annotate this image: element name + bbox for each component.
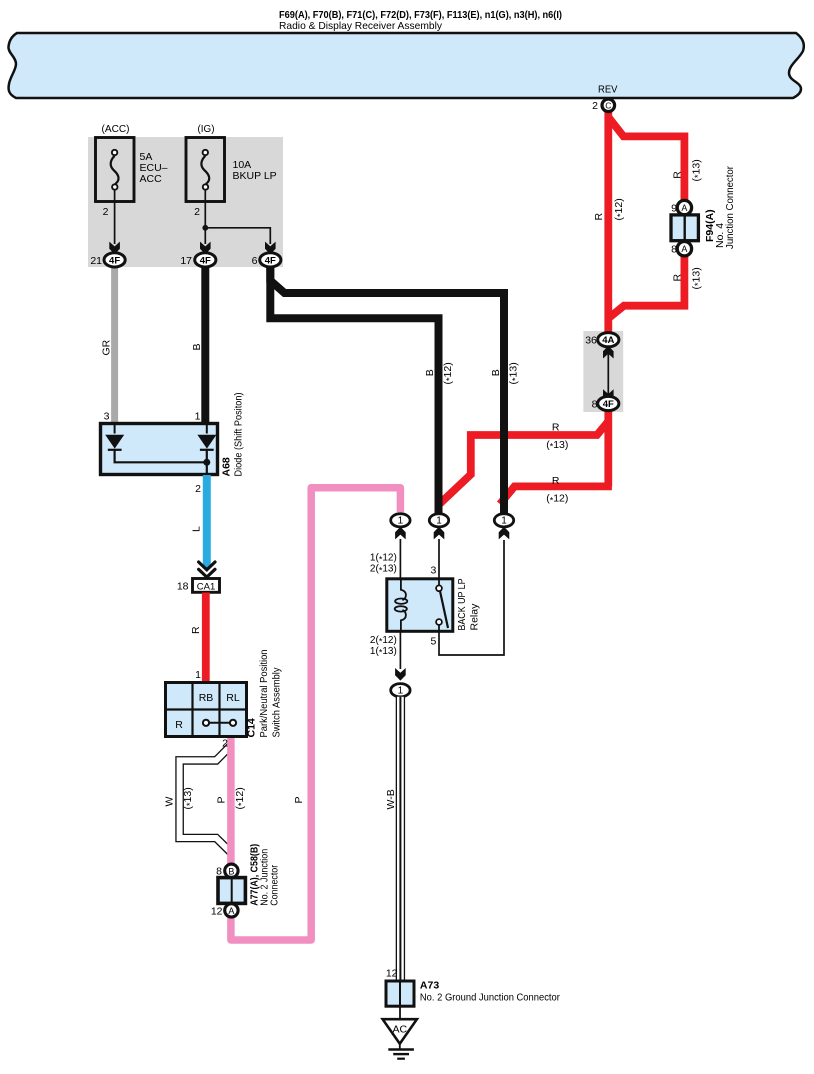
wire R below 4F [604, 410, 612, 486]
svg-text:R: R [175, 719, 183, 731]
svg-text:ACC: ACC [140, 173, 163, 185]
junction dot [202, 225, 208, 231]
svg-text:RL: RL [226, 692, 240, 704]
junction connector F94(A) [671, 166, 736, 256]
svg-text:Connector: Connector [269, 864, 281, 905]
svg-text:R: R [671, 274, 683, 282]
relay box [387, 579, 453, 632]
svg-text:(*13): (*13) [508, 362, 521, 384]
svg-text:Relay: Relay [468, 603, 480, 631]
svg-text:AC: AC [393, 1024, 408, 1036]
connector CA1 [177, 579, 220, 593]
pin 3 wire [438, 539, 440, 580]
svg-text:5: 5 [430, 636, 436, 648]
connector 4A/4F pass-through [585, 333, 619, 411]
diode D1 [114, 425, 116, 434]
junction connector A77(A) C58(B) [211, 844, 281, 918]
relay BACK UP LP [370, 539, 504, 697]
svg-text:8: 8 [671, 244, 677, 256]
svg-text:Junction Connector: Junction Connector [724, 166, 736, 249]
svg-text:1(*13): 1(*13) [370, 646, 397, 658]
svg-text:2: 2 [194, 206, 200, 218]
svg-text:R: R [552, 421, 560, 433]
svg-text:2: 2 [103, 206, 109, 218]
oval 1 mid [429, 514, 448, 527]
svg-text:B: B [424, 369, 436, 376]
ground junction connector A73 [386, 968, 561, 1007]
svg-text:2: 2 [592, 100, 598, 112]
oval 1 relay coil ground pin [391, 684, 410, 697]
svg-text:A: A [228, 906, 234, 916]
wire W (*13) loop [180, 745, 232, 853]
coil bottom wire and arrow down [399, 631, 401, 669]
svg-text:R: R [593, 213, 605, 221]
arrow into 4F pin 6 [265, 242, 276, 255]
svg-text:4F: 4F [603, 399, 614, 410]
ground symbol AC [383, 1006, 417, 1058]
svg-text:CA1: CA1 [197, 581, 215, 592]
pin 5 wire to right oval [439, 540, 504, 655]
svg-text:12: 12 [386, 968, 398, 980]
svg-text:1: 1 [195, 411, 201, 423]
wire GR from 4F pin 21 to diode [111, 265, 118, 424]
wire R main vertical from C [604, 111, 612, 335]
gray panel 4A/4F connector bg [583, 331, 623, 412]
wire R (*12) to relay pin [500, 486, 612, 504]
svg-text:C: C [605, 101, 611, 111]
node C circle on bus [592, 99, 614, 112]
svg-text:4A: 4A [602, 335, 614, 346]
fuse F2 element [201, 156, 209, 184]
svg-text:P: P [215, 796, 227, 803]
svg-text:W-B: W-B [385, 789, 397, 809]
svg-text:L: L [191, 526, 203, 532]
svg-text:No. 2 Ground Junction Connect: No. 2 Ground Junction Connector [420, 991, 560, 1003]
coil [401, 579, 406, 600]
svg-text:B: B [490, 369, 502, 376]
relay connector ovals 1,1,1 [391, 514, 514, 540]
svg-text:18: 18 [177, 580, 189, 592]
oval connector 4F pin 6 [252, 253, 281, 267]
svg-text:BKUP LP: BKUP LP [233, 170, 277, 182]
svg-text:1: 1 [436, 516, 442, 527]
switch C14 Park/Neutral Position box [166, 649, 283, 749]
fuse F1 5A ECU-ACC box [96, 138, 135, 202]
wire R (*13) branch to F94 junction top [608, 117, 684, 203]
svg-text:21: 21 [90, 255, 102, 267]
wire fuse F2 down [204, 190, 206, 245]
svg-text:9: 9 [671, 203, 677, 215]
svg-text:8: 8 [216, 866, 222, 878]
svg-text:36: 36 [585, 335, 597, 347]
svg-text:BACK UP LP: BACK UP LP [456, 579, 468, 631]
switch contacts [209, 722, 230, 724]
svg-text:REV: REV [598, 84, 618, 96]
svg-text:(*13): (*13) [690, 159, 703, 181]
wire arrows up into ovals [395, 527, 406, 540]
svg-text:R: R [671, 171, 683, 179]
svg-text:RB: RB [199, 692, 214, 704]
svg-text:(*12): (*12) [613, 198, 626, 220]
svg-text:3: 3 [430, 565, 436, 577]
wire fuse F1 to connector 4F [114, 190, 116, 245]
svg-text:8: 8 [592, 399, 598, 411]
svg-text:Switch Assembly: Switch Assembly [271, 667, 283, 738]
svg-text:(*12): (*12) [234, 787, 247, 809]
svg-text:W: W [164, 797, 176, 807]
double chevron arrow into CA1 [199, 562, 215, 577]
svg-text:4F: 4F [200, 255, 211, 266]
svg-text:A: A [681, 203, 687, 213]
svg-text:2(*13): 2(*13) [370, 564, 397, 576]
wire B (*13) from 4F pin 6 [270, 263, 504, 514]
svg-text:3: 3 [104, 411, 110, 423]
svg-text:(*13): (*13) [546, 439, 568, 452]
switch contact [438, 579, 440, 585]
svg-text:2: 2 [195, 483, 201, 495]
svg-text:B: B [191, 343, 203, 350]
svg-text:A73: A73 [420, 980, 439, 992]
double arrow [607, 352, 609, 396]
oval connector 4F pin 21 [90, 253, 125, 267]
svg-text:2: 2 [222, 738, 228, 750]
wire R (*13) to relay pin [440, 421, 608, 503]
svg-text:4F: 4F [109, 255, 120, 266]
svg-text:R: R [552, 475, 560, 487]
oval 1 left [391, 514, 410, 527]
svg-text:Radio & Display Receiver Assem: Radio & Display Receiver Assembly [279, 20, 443, 32]
svg-text:R: R [190, 626, 202, 634]
svg-text:17: 17 [180, 255, 192, 267]
svg-text:A68: A68 [221, 457, 233, 476]
wire L from diode pin 2 [203, 475, 211, 569]
coil pin wire [399, 539, 401, 594]
svg-text:1: 1 [195, 669, 201, 681]
oval 1 right [494, 514, 513, 527]
wire B (*12) from 4F pin 6 [270, 263, 438, 514]
fuse F1 element [111, 156, 119, 184]
svg-text:P: P [293, 796, 305, 803]
fuse F2 10A BKUP LP box [186, 138, 225, 202]
pink wire P from C14 pin 2 to relay via A77 [231, 488, 401, 940]
svg-text:(IG): (IG) [198, 123, 215, 135]
svg-text:GR: GR [101, 339, 113, 355]
svg-text:(*12): (*12) [442, 362, 455, 384]
svg-text:A: A [681, 244, 687, 254]
diode A68 box [101, 393, 245, 496]
svg-text:4F: 4F [265, 255, 276, 266]
wire R (*13) branch from F94 junction bottom [608, 254, 684, 319]
svg-text:Diode (Shift Positon): Diode (Shift Positon) [233, 393, 245, 477]
svg-text:B: B [228, 866, 234, 876]
gray panel fuse block bg [88, 137, 283, 267]
wire branch to pin 6 [205, 228, 270, 244]
wire B from 4F pin 17 to diode [201, 265, 209, 424]
wire R from CA1 to C14 [202, 593, 210, 683]
oval connector 4F pin 17 [180, 253, 216, 267]
svg-text:Park/Neutral Position: Park/Neutral Position [258, 649, 270, 737]
svg-text:1: 1 [398, 686, 404, 697]
svg-text:(ACC): (ACC) [102, 123, 130, 135]
diode D2 [206, 425, 208, 434]
svg-text:(*13): (*13) [182, 787, 195, 809]
bus band Radio & Display Receiver Assembly [8, 33, 803, 98]
arrow into 4F pin 21 [109, 242, 120, 255]
arrow into 4F pin 17 [200, 242, 211, 255]
svg-text:C14: C14 [246, 718, 258, 737]
svg-text:(*13): (*13) [690, 267, 703, 289]
wire W-B to ground [396, 697, 405, 981]
svg-text:6: 6 [252, 255, 258, 267]
svg-text:1: 1 [501, 516, 507, 527]
svg-text:(*12): (*12) [546, 493, 568, 506]
svg-text:12: 12 [211, 906, 223, 918]
svg-text:1: 1 [398, 516, 404, 527]
